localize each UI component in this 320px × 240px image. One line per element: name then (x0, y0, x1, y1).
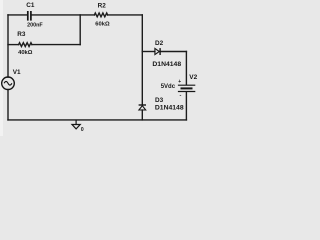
resistor R2 (94, 13, 107, 17)
svg-text:40kΩ: 40kΩ (18, 50, 33, 56)
diode D2 (155, 48, 160, 55)
wire: V2 bottom stub to bottom rail (185, 92, 187, 120)
svg-text:R2: R2 (98, 2, 107, 9)
svg-text:-: - (180, 93, 182, 99)
svg-text:D1N4148: D1N4148 (152, 61, 181, 68)
ground (72, 120, 80, 129)
wire: left rail top (to V1) (7, 15, 9, 77)
wire: D3 to bottom rail (141, 110, 143, 120)
wire: junction vertical up to top wire (79, 15, 81, 45)
svg-text:200nF: 200nF (27, 22, 43, 28)
svg-text:D1N4148: D1N4148 (155, 105, 184, 112)
svg-text:60kΩ: 60kΩ (95, 22, 110, 28)
wire: R3 to junction vertical (32, 44, 80, 46)
wire: D2 to right vertical (160, 51, 186, 53)
wire: right vertical down to V2 (185, 52, 187, 85)
AC source V1 (2, 77, 15, 90)
wire top-left: left rail to C1 (8, 14, 27, 16)
battery V2 (178, 85, 195, 91)
wire: R3 branch from left rail (8, 44, 19, 46)
svg-text:D2: D2 (155, 40, 164, 47)
wire bottom rail (8, 119, 186, 121)
wire: R2 to top-right corner (108, 14, 143, 16)
resistor R3 (19, 43, 32, 47)
wire: C1 to R2 (32, 14, 95, 16)
svg-text:D3: D3 (155, 97, 164, 104)
svg-text:0: 0 (81, 127, 84, 133)
wire: right vertical down to D3 (141, 15, 143, 105)
capacitor C1 (28, 11, 31, 21)
svg-text:C1: C1 (26, 2, 35, 9)
diode D3 (139, 105, 146, 110)
wire: node to D2 (142, 51, 155, 53)
wire: V1 to bottom rail (7, 90, 9, 120)
svg-text:+: + (178, 79, 181, 85)
svg-text:V1: V1 (13, 69, 21, 76)
svg-text:5Vdc: 5Vdc (161, 84, 176, 90)
svg-text:R3: R3 (17, 31, 26, 38)
svg-text:V2: V2 (189, 74, 197, 81)
